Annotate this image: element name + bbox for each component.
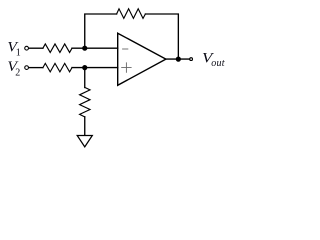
svg-text:2: 2 [15, 68, 20, 79]
svg-text:out: out [211, 58, 225, 69]
svg-text:1: 1 [16, 48, 21, 59]
